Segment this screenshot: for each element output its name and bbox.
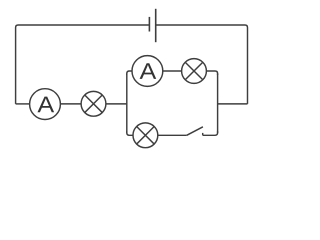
wire: lamp L1 to parallel block input node <box>106 103 127 105</box>
switch S1 fixed contact post <box>202 133 204 135</box>
wire: switch S1 contact to bottom of right junction bar <box>203 131 218 135</box>
node: left junction bar of parallel block <box>126 74 128 133</box>
battery cell B1 long plate (positive) <box>155 9 157 42</box>
switch S1 open blade <box>187 127 203 136</box>
wire: left junction bar down to lamp L3 <box>127 131 133 135</box>
wire: ammeter A2 to lamp L2 <box>163 70 182 72</box>
node: right junction bar of parallel block <box>217 74 219 133</box>
ammeter A2 (top branch) <box>132 56 163 87</box>
wire: battery negative terminal to top-left corner and down left rail <box>16 25 149 104</box>
ammeter A2 label "A" <box>140 63 157 79</box>
ammeter A1 <box>30 89 61 120</box>
battery cell B1 short plate (negative) <box>148 17 150 32</box>
wire: right rail bottom to parallel block output node <box>218 103 248 105</box>
wire: lamp L3 to switch S1 <box>158 134 187 136</box>
lamp L2 (top branch) <box>182 59 207 84</box>
wire: left rail bottom to ammeter A1 <box>16 103 30 105</box>
lamp L1 <box>81 91 106 116</box>
lamp L3 (bottom branch) <box>133 123 158 148</box>
wire: battery positive terminal to top-right corner and down right rail <box>156 25 248 104</box>
wire: lamp L2 to top of right junction bar <box>206 71 217 75</box>
wire: ammeter A1 to lamp L1 <box>60 103 81 105</box>
wire: left junction bar up to ammeter A2 <box>127 71 132 75</box>
ammeter A1 label "A" <box>37 97 54 113</box>
